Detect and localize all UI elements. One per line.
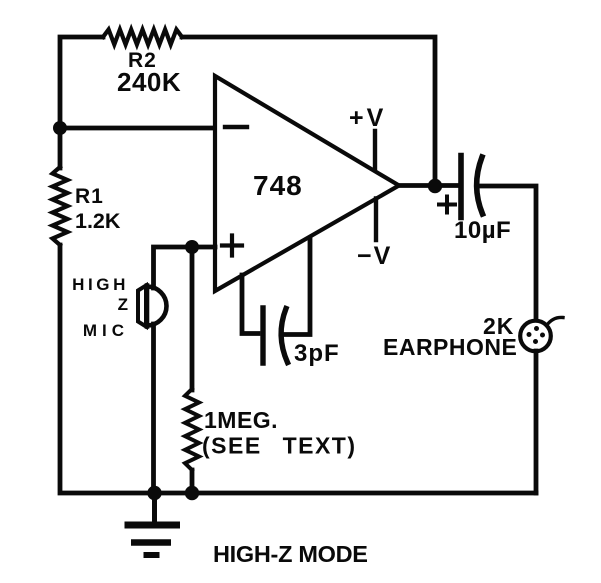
- wire plus input: [154, 247, 216, 288]
- wire left rail upper (to R1): [58, 128, 63, 168]
- wire op-amp output: [399, 183, 458, 188]
- capacitor C2 polarity plus: [439, 197, 455, 213]
- node plus input junction: [185, 240, 199, 254]
- wire capacitor C1 right leg: [281, 239, 310, 335]
- resistor R3 1MEG: [185, 389, 199, 470]
- node output junction: [428, 179, 442, 193]
- wire 1MEG lower: [190, 470, 195, 493]
- svg-text:3pF: 3pF: [294, 340, 340, 367]
- pin +V supply line: [373, 131, 377, 170]
- pin -V supply line: [374, 199, 378, 241]
- wire top rail right segment: [182, 37, 435, 184]
- svg-text:HIGH-Z MODE: HIGH-Z MODE: [213, 541, 368, 567]
- op-amp plus input symbol: [222, 236, 242, 256]
- wire top rail left segment: [60, 37, 103, 126]
- svg-text:EARPHONE: EARPHONE: [383, 334, 517, 360]
- wire right rail lower: [534, 351, 539, 493]
- svg-text:+V: +V: [349, 104, 386, 132]
- node ground rail 1MEG junction: [185, 486, 199, 500]
- svg-text:1MEG.: 1MEG.: [204, 407, 278, 433]
- capacitor C1 3pF right plate: [281, 309, 287, 363]
- wire mic to ground rail: [151, 324, 156, 493]
- microphone MIC dome: [147, 286, 167, 327]
- resistor R2: [103, 30, 182, 45]
- wire capacitor C1 left leg: [242, 275, 258, 334]
- node inverting input junction: [53, 121, 67, 135]
- earphone cord tail: [547, 317, 564, 325]
- op-amp minus input symbol: [225, 125, 247, 129]
- earphone jack body: [520, 321, 551, 352]
- op-amp U1 748: [215, 76, 399, 291]
- capacitor C2 10uF right plate: [477, 157, 483, 214]
- svg-text:10µF: 10µF: [454, 217, 511, 244]
- svg-text:748: 748: [253, 170, 303, 201]
- earphone pin dots: [527, 326, 546, 344]
- svg-text:240K: 240K: [117, 67, 181, 97]
- node ground rail mic junction: [147, 486, 161, 500]
- wire output to right rail: [477, 186, 536, 321]
- ground: [125, 493, 181, 555]
- svg-text:1.2K: 1.2K: [75, 209, 121, 233]
- wire left rail lower: [60, 245, 536, 493]
- svg-text:HIGH: HIGH: [72, 275, 129, 294]
- svg-text:MIC: MIC: [83, 321, 129, 340]
- svg-text:Z: Z: [118, 295, 128, 314]
- svg-text:(SEE TEXT): (SEE TEXT): [202, 433, 357, 459]
- wire 1MEG upper: [190, 247, 195, 390]
- microphone MIC element trapezoid: [138, 286, 146, 327]
- svg-text:R1: R1: [75, 185, 104, 208]
- wire inverting input: [60, 126, 214, 131]
- capacitor C1 3pF left plate: [260, 308, 265, 363]
- svg-text:−V: −V: [357, 242, 392, 270]
- capacitor C2 10uF left plate: [458, 156, 464, 218]
- resistor R1: [53, 167, 68, 245]
